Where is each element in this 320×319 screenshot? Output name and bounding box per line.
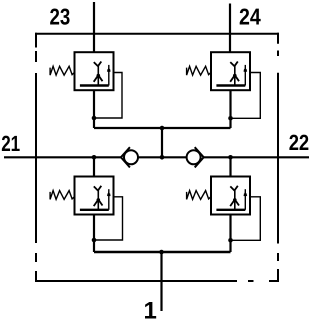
svg-text:21: 21 [1,131,20,156]
svg-text:23: 23 [50,4,71,30]
svg-text:22: 22 [289,130,310,155]
svg-text:1: 1 [144,297,157,319]
svg-text:24: 24 [239,4,261,30]
